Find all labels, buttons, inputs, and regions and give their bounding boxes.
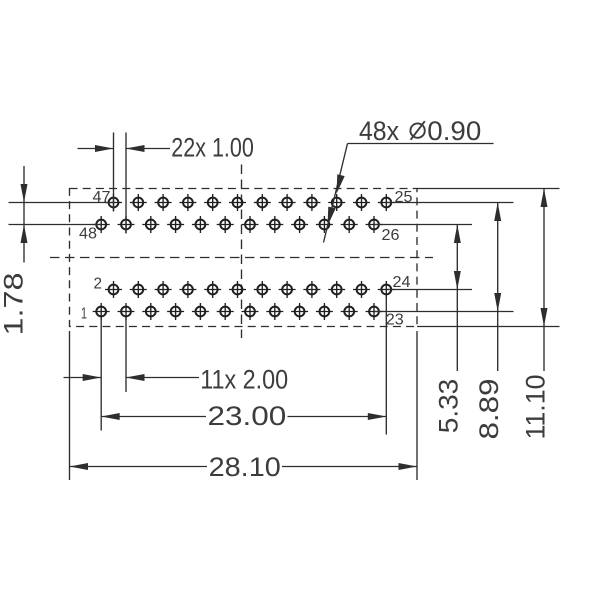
pad 3 (118, 303, 135, 320)
dim 22x1.00 left arrow (95, 145, 114, 152)
dim 5.33 top arrow (454, 225, 461, 244)
dim 22x1.00 right arrow (126, 145, 145, 152)
pad 47 (105, 194, 122, 211)
pad 43 (155, 194, 172, 211)
pad 24 (378, 281, 395, 298)
svg-text:23: 23 (386, 312, 404, 329)
dim 11x2.00 extension line col pad3 (125, 318, 127, 392)
svg-text:24: 24 (393, 274, 411, 291)
pad 39 (204, 194, 221, 211)
pad 25 (378, 194, 395, 211)
ext line top edge (417, 188, 560, 190)
pad 32 (291, 216, 308, 233)
pad 10 (204, 281, 221, 298)
pad 27 (353, 194, 370, 211)
pad 19 (316, 303, 333, 320)
svg-text:11.10: 11.10 (521, 375, 551, 440)
svg-text:2: 2 (94, 276, 103, 293)
dim 1.78 dimension line (23, 166, 25, 263)
pad 35 (254, 194, 271, 211)
pad 34 (266, 216, 283, 233)
leader arrow at pad row1 (337, 174, 345, 193)
pad 37 (229, 194, 246, 211)
pad 28 (341, 216, 358, 233)
pad 48 (93, 216, 110, 233)
horizontal centerline (50, 257, 433, 259)
pad 1 (93, 303, 110, 320)
svg-text:26: 26 (382, 227, 400, 244)
pad 5 (142, 303, 159, 320)
svg-text:48: 48 (79, 226, 97, 243)
dim 11x2.00 right arrow (126, 374, 145, 381)
dim 5.33 dimension line (456, 225, 458, 372)
dim 11x2.00 left arrow (83, 374, 102, 381)
ext line from pad 24 (386, 289, 472, 291)
dim 28.10 extension line left (69, 331, 71, 480)
dim 5.33 bottom arrow (454, 271, 461, 290)
svg-text:5.33: 5.33 (434, 379, 464, 434)
leader arrow at pad row2 (328, 207, 336, 226)
svg-text:22x 1.00: 22x 1.00 (171, 133, 254, 163)
dim 23.00 dimension line right (288, 416, 387, 418)
pad 42 (167, 216, 184, 233)
dim 11x2.00 dimension line left (64, 377, 102, 379)
pad 23 (366, 303, 383, 320)
dim 22x1.00 extension line col 47 (113, 133, 115, 212)
pad 31 (303, 194, 320, 211)
pad 36 (242, 216, 259, 233)
pad 40 (192, 216, 209, 233)
connector body outline (dashed) (70, 189, 418, 327)
dim 8.89 top arrow (494, 203, 501, 222)
pad 7 (167, 303, 184, 320)
dim 22x1.00 extension line col 46 (125, 133, 127, 234)
pad 18 (303, 281, 320, 298)
dim 1.78 lower arrow (21, 225, 28, 244)
dim 8.89 dimension line (497, 203, 499, 372)
dim 28.10 extension line right (416, 331, 418, 480)
dim 28.10 dimension line left (70, 466, 208, 468)
pad 2 (105, 281, 122, 298)
note dia symbol (410, 121, 424, 140)
svg-text:47: 47 (93, 189, 111, 206)
pad 11 (217, 303, 234, 320)
ext line from pad 23 (374, 311, 514, 313)
pad 16 (279, 281, 296, 298)
svg-text:8.89: 8.89 (474, 379, 504, 440)
ext line from pad 26 (374, 224, 472, 226)
leader diagonal (324, 144, 348, 243)
pad 12 (229, 281, 246, 298)
dim 1.78 extension line from pad 48 (9, 224, 102, 226)
dim 28.10 right arrow (399, 463, 418, 470)
dim 11.10 top arrow (541, 189, 548, 208)
svg-text:23.00: 23.00 (208, 401, 287, 431)
pad 13 (242, 303, 259, 320)
dim 11x2.00 extension line col pad1 (100, 318, 102, 431)
svg-text:48x: 48x (359, 116, 399, 146)
dim 1.78 upper arrow (21, 184, 28, 203)
dim 1.78 extension line from pad 47 (9, 202, 114, 204)
svg-text:11x 2.00: 11x 2.00 (200, 365, 288, 395)
svg-text:1: 1 (81, 306, 87, 323)
dim 22x1.00 dimension line right (126, 148, 170, 150)
pad 9 (192, 303, 209, 320)
pad 38 (217, 216, 234, 233)
dim 28.10 left arrow (70, 463, 89, 470)
svg-text:1.78: 1.78 (0, 273, 29, 336)
dim 23.00 dimension line left (101, 416, 206, 418)
pad 6 (155, 281, 172, 298)
vertical centerline (241, 165, 243, 339)
dim 8.89 bottom arrow (494, 293, 501, 312)
pad 14 (254, 281, 271, 298)
pad 15 (266, 303, 283, 320)
dim 28.10 dimension line right (282, 466, 417, 468)
dim 22x1.00 dimension line left (78, 148, 114, 150)
pad 45 (130, 194, 147, 211)
pad 20 (328, 281, 345, 298)
pad 30 (316, 216, 333, 233)
pad 4 (130, 281, 147, 298)
pad 44 (142, 216, 159, 233)
pad 33 (279, 194, 296, 211)
pad 22 (353, 281, 370, 298)
ext line from pad 25 (386, 202, 513, 204)
pad 46 (118, 216, 135, 233)
pad 41 (179, 194, 196, 211)
dim 23.00 extension line pad24 column (385, 298, 387, 435)
svg-text:25: 25 (395, 189, 413, 206)
dim 11.10 dimension line (543, 189, 545, 372)
dim 23.00 left arrow (101, 413, 120, 420)
pad 8 (179, 281, 196, 298)
pad 29 (328, 194, 345, 211)
pad 26 (366, 216, 383, 233)
pad 17 (291, 303, 308, 320)
dim 11x2.00 dimension line right (126, 377, 199, 379)
leader underline (348, 143, 494, 145)
dim 23.00 right arrow (368, 413, 387, 420)
svg-text:0.90: 0.90 (427, 116, 481, 146)
ext line bottom edge (417, 326, 560, 328)
svg-text:28.10: 28.10 (209, 452, 281, 482)
pad 21 (341, 303, 358, 320)
dim 11.10 bottom arrow (541, 308, 548, 327)
